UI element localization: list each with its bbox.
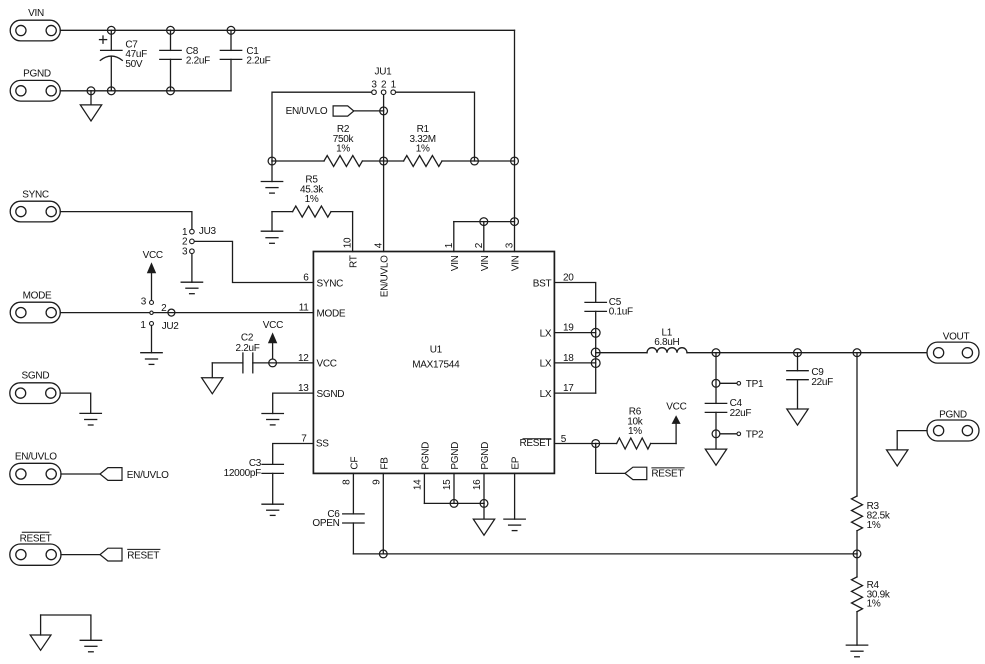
svg-text:EN/UVLO: EN/UVLO	[286, 106, 328, 117]
svg-text:2: 2	[381, 80, 387, 91]
wire FB pin9	[382, 473, 384, 554]
node PGND16	[480, 500, 488, 508]
ground PGND pins triangle	[473, 519, 494, 535]
wire chip pin7 SS to C3	[273, 444, 314, 465]
pin 17 LX	[540, 383, 575, 400]
svg-text:SYNC: SYNC	[317, 278, 344, 289]
node VIN-rail-R1	[511, 157, 519, 165]
svg-text:8: 8	[341, 479, 352, 485]
svg-text:PGND: PGND	[420, 442, 431, 470]
wire C4 branch vertical	[715, 353, 717, 404]
svg-text:14: 14	[412, 479, 423, 490]
wire L1 to VOUT	[687, 352, 927, 354]
wire JU1 pin3 to R2 left	[272, 92, 372, 161]
ground EP	[504, 519, 525, 531]
pin JU2-mid	[150, 311, 153, 314]
wire PGND bus	[60, 90, 231, 92]
pin 16 PGND	[472, 442, 491, 490]
svg-text:2.2uF: 2.2uF	[246, 56, 270, 67]
svg-text:EP: EP	[511, 456, 522, 469]
pin 9 FB	[371, 457, 390, 485]
node VIN3	[511, 218, 519, 226]
wire pin19 LX	[554, 332, 595, 334]
svg-text:12: 12	[298, 353, 309, 364]
ground below R5 left	[261, 212, 282, 244]
connector PGND (input)	[10, 69, 60, 102]
test point TP1	[720, 379, 764, 390]
node R1-right	[471, 157, 479, 165]
pin 4 EN/UVLO	[374, 242, 391, 297]
capacitor C2 2.2uF	[212, 332, 313, 372]
svg-text:2: 2	[161, 303, 167, 314]
node VIN-C8	[167, 26, 175, 34]
ground pair bottom-left triangle	[30, 615, 51, 650]
wire CF pin8 to C6	[352, 473, 354, 514]
pin EP	[511, 456, 522, 469]
node VIN2	[480, 218, 488, 226]
ground C9 triangle	[787, 409, 808, 425]
svg-text:VCC: VCC	[317, 359, 337, 370]
pin JU2-2 on MODE wire	[168, 309, 175, 316]
wire chip pin13 SGND to ground	[273, 393, 314, 413]
svg-text:JU2: JU2	[162, 321, 180, 332]
pin 12 VCC	[298, 353, 337, 370]
connector RESET	[10, 532, 61, 565]
ground JU2	[141, 353, 162, 365]
node PGND15	[450, 500, 458, 508]
svg-text:RESET: RESET	[20, 533, 52, 544]
svg-text:13: 13	[298, 383, 309, 394]
wire flag to JU1 pin2	[354, 110, 384, 112]
svg-text:VCC: VCC	[143, 250, 163, 261]
jumper JU1	[371, 66, 396, 90]
wire LX rail vertical	[595, 311, 597, 393]
svg-text:22uF: 22uF	[730, 408, 752, 419]
capacitor C1 2.2uF	[220, 30, 270, 91]
wire EN/UVLO connector to flag	[61, 473, 100, 475]
node R2-left	[268, 157, 276, 165]
node R2-R1-EN	[380, 157, 388, 165]
svg-text:PGND: PGND	[939, 409, 967, 420]
svg-text:0.1uF: 0.1uF	[609, 307, 633, 318]
node R3 branch	[853, 349, 861, 357]
inductor L1 6.8uH	[647, 327, 687, 352]
wire VIN top rail horizontal	[60, 29, 514, 31]
power VCC arrow at JU2	[143, 250, 163, 301]
svg-text:LX: LX	[540, 328, 552, 339]
capacitor C7 47uF 50V polarized	[100, 30, 148, 91]
capacitor C4 22uF	[705, 398, 751, 449]
pin 19 LX	[540, 323, 575, 340]
resistor R6 10k 1%	[596, 407, 676, 449]
svg-text:TP1: TP1	[746, 379, 764, 390]
node FB pin	[379, 550, 387, 558]
wire VIN rail vertical	[514, 30, 516, 251]
svg-text:FB: FB	[379, 457, 390, 470]
svg-text:6.8uH: 6.8uH	[654, 337, 679, 348]
connector SYNC	[10, 190, 60, 222]
node EN/UVLO junction	[380, 107, 388, 115]
connector VIN	[10, 8, 60, 41]
svg-text:1%: 1%	[336, 143, 350, 154]
svg-text:VOUT: VOUT	[943, 331, 970, 342]
svg-text:SGND: SGND	[317, 389, 345, 400]
svg-text:VIN: VIN	[511, 255, 522, 271]
node PGND-C7	[107, 87, 115, 95]
svg-text:15: 15	[442, 479, 453, 490]
svg-text:VIN: VIN	[28, 8, 44, 19]
pin 10 RT	[343, 237, 360, 268]
node TP1 tap	[712, 379, 720, 387]
svg-text:7: 7	[301, 434, 307, 445]
svg-text:OPEN: OPEN	[312, 518, 339, 529]
node VIN-C7	[107, 26, 115, 34]
svg-text:1: 1	[391, 80, 397, 91]
pin 20 BST	[533, 273, 575, 290]
svg-text:11: 11	[299, 303, 310, 314]
svg-text:RESET: RESET	[127, 550, 159, 561]
wire SGND connector to ground	[60, 393, 90, 413]
resistor R5 45.3k 1%	[272, 175, 353, 218]
svg-text:RESET: RESET	[651, 469, 683, 480]
svg-text:RT: RT	[349, 255, 360, 268]
pin JU3-1	[190, 229, 195, 234]
ground pair bottom-left signal	[80, 640, 101, 652]
node VIN-C1	[227, 26, 235, 34]
svg-text:EN/UVLO: EN/UVLO	[127, 470, 169, 481]
wire pin17 LX	[554, 392, 595, 394]
svg-text:1%: 1%	[867, 520, 881, 531]
pin 1 VIN	[444, 242, 461, 271]
svg-text:1%: 1%	[416, 143, 430, 154]
pin 11 MODE	[299, 303, 346, 320]
connector MODE	[10, 291, 60, 323]
jumper JU2	[140, 296, 179, 332]
pin 3 VIN	[505, 242, 522, 271]
svg-text:TP2: TP2	[746, 429, 764, 440]
power VCC arrow at C2	[263, 320, 283, 359]
wire PGND pins 14-16	[424, 473, 484, 519]
pin JU2-3	[150, 301, 154, 305]
connector VOUT	[927, 331, 979, 363]
pin 6 SYNC	[303, 273, 343, 290]
node FB divider	[853, 550, 861, 558]
svg-text:SGND: SGND	[22, 370, 50, 381]
resistor R3 82.5k 1%	[852, 353, 891, 554]
pin JU3-3	[190, 249, 195, 254]
node C4 branch	[712, 349, 720, 357]
svg-text:RESET: RESET	[519, 438, 551, 449]
svg-text:EN/UVLO: EN/UVLO	[380, 255, 391, 297]
svg-text:PGND: PGND	[23, 69, 51, 80]
flag RESET (left)	[100, 548, 160, 561]
wire pin18 LX	[554, 362, 595, 364]
svg-text:3: 3	[182, 247, 188, 258]
pin 5 RESET	[519, 434, 566, 449]
svg-text:22uF: 22uF	[811, 377, 833, 388]
flag RESET (right)	[625, 467, 685, 479]
wire MODE to chip pin11	[60, 312, 313, 314]
ground PGND output triangle	[887, 450, 908, 466]
svg-text:VIN: VIN	[480, 255, 491, 271]
svg-text:12000pF: 12000pF	[224, 468, 262, 479]
capacitor C5 0.1uF	[585, 297, 633, 317]
ground chip SGND	[262, 414, 283, 425]
connector EN/UVLO	[10, 452, 61, 485]
wire VIN pins header	[454, 222, 515, 252]
svg-text:BST: BST	[533, 278, 552, 289]
pin 8 CF	[341, 457, 360, 485]
svg-text:6: 6	[303, 273, 309, 284]
wire JU3 pin3 to ground	[191, 254, 193, 283]
capacitor C8 2.2uF	[160, 30, 210, 91]
wire LX to L1	[596, 352, 647, 354]
resistor R2 750k 1%	[272, 124, 384, 166]
wire R5 to chip pin10	[352, 212, 354, 252]
svg-text:EN/UVLO: EN/UVLO	[15, 452, 57, 463]
node TP2 tap	[712, 430, 720, 438]
node VCC pin12	[269, 359, 277, 367]
pin JU3-2	[190, 239, 195, 244]
test point TP2	[720, 429, 764, 440]
resistor R4 30.9k 1%	[852, 554, 891, 645]
node PGND-C8	[167, 87, 175, 95]
node C9 branch	[794, 349, 802, 357]
svg-text:1: 1	[444, 242, 455, 248]
wire BST pin20 to C5	[554, 283, 595, 303]
wire SYNC to JU3	[60, 212, 192, 230]
pin JU2-1	[150, 322, 154, 326]
svg-text:PGND: PGND	[450, 442, 461, 470]
ground input PGND triangle	[80, 91, 101, 121]
svg-text:10: 10	[343, 237, 354, 248]
ground JU3	[181, 282, 202, 294]
svg-text:VCC: VCC	[263, 320, 283, 331]
resistor R1 3.32M 1%	[384, 124, 515, 166]
wire RESET connector to flag	[61, 554, 100, 556]
node PGND-gnd	[87, 87, 95, 95]
svg-text:C2: C2	[241, 332, 254, 343]
node LX18	[591, 359, 600, 368]
pin 18 LX	[540, 353, 575, 370]
wire ground bridge	[41, 615, 91, 640]
svg-text:JU1: JU1	[375, 66, 393, 77]
wire EP to ground	[514, 473, 516, 519]
wire JU1 pin2 down to chip pin4	[383, 94, 385, 251]
connector SGND	[10, 370, 61, 403]
svg-text:LX: LX	[540, 359, 552, 370]
pin 14 PGND	[412, 442, 431, 490]
svg-text:JU3: JU3	[199, 226, 217, 237]
wire RESET pin5	[554, 443, 595, 445]
capacitor C6 OPEN	[312, 509, 364, 554]
svg-text:3: 3	[371, 80, 377, 91]
wire FB bus	[353, 553, 857, 555]
ground C2 left triangle	[202, 363, 223, 394]
pin 2 VIN	[474, 242, 491, 271]
svg-text:VCC: VCC	[666, 401, 686, 412]
wire RESET to flag	[596, 444, 625, 474]
pin 7 SS	[301, 434, 329, 450]
svg-text:3: 3	[141, 296, 147, 307]
svg-text:1%: 1%	[305, 194, 319, 205]
ground C3	[262, 504, 283, 515]
svg-text:U1: U1	[430, 344, 443, 355]
flag EN/UVLO (left)	[100, 468, 169, 481]
flag EN/UVLO (top)	[286, 106, 354, 117]
ground below R2 left	[261, 161, 282, 193]
wire JU2 pin1 to ground	[151, 326, 153, 353]
svg-text:1%: 1%	[867, 599, 881, 610]
svg-text:50V: 50V	[125, 59, 143, 70]
svg-text:MODE: MODE	[317, 308, 346, 319]
node LX out	[591, 348, 600, 357]
pin JU1-1	[391, 90, 396, 95]
svg-text:PGND: PGND	[480, 442, 491, 470]
svg-text:SYNC: SYNC	[22, 190, 49, 201]
pin 13 SGND	[298, 383, 344, 400]
connector PGND (output)	[927, 409, 979, 441]
svg-text:2.2uF: 2.2uF	[235, 343, 259, 354]
power VCC arrow at R6	[666, 401, 686, 443]
svg-text:2: 2	[474, 242, 485, 248]
svg-text:MODE: MODE	[23, 291, 52, 302]
svg-text:3: 3	[505, 242, 516, 248]
svg-text:LX: LX	[540, 389, 552, 400]
svg-text:4: 4	[374, 242, 385, 248]
capacitor C9 22uF	[787, 353, 833, 409]
wire JU3 pin2 to chip pin6 SYNC	[194, 241, 313, 282]
svg-text:1: 1	[140, 320, 146, 331]
pin JU1-2	[381, 90, 386, 95]
pin 15 PGND	[442, 442, 461, 490]
ground C4 triangle	[705, 449, 726, 465]
svg-text:16: 16	[472, 479, 483, 490]
svg-text:2.2uF: 2.2uF	[186, 56, 210, 67]
op-amp U1 MAX17544 chip body	[313, 252, 554, 474]
svg-text:1%: 1%	[628, 426, 642, 437]
svg-text:VIN: VIN	[450, 255, 461, 271]
ground R4	[846, 645, 867, 657]
node RESET	[592, 440, 600, 448]
svg-text:SS: SS	[316, 438, 329, 449]
svg-text:9: 9	[371, 479, 382, 485]
wire PGND output to ground	[897, 431, 927, 450]
svg-text:CF: CF	[349, 457, 360, 470]
capacitor C3 12000pF	[224, 458, 284, 504]
wire JU1 pin1 to R1 right	[395, 92, 474, 161]
node LX19	[591, 328, 600, 337]
ground SGND connector	[80, 413, 101, 425]
svg-text:MAX17544: MAX17544	[412, 359, 460, 370]
jumper JU3	[182, 226, 216, 258]
pin JU1-3	[372, 90, 377, 95]
